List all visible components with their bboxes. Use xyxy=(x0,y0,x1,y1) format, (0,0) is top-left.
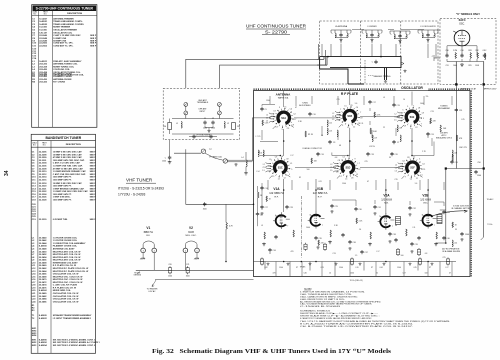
capacitor C37 xyxy=(360,250,363,254)
svg-text:C25: C25 xyxy=(364,161,367,163)
svg-text:1000 MMF GMV FT.: 1000 MMF GMV FT. xyxy=(53,199,72,201)
svg-text:SW. SECTION 1-2 W/DISC ASSEM.: SW. SECTION 1-2 W/DISC ASSEM. A-C PLATE … xyxy=(53,341,101,344)
svg-text:22-2648: 22-2648 xyxy=(39,37,47,40)
wire switch columns xyxy=(284,128,412,156)
svg-text:OSCILLATOR COIL CH. W: OSCILLATOR COIL CH. W xyxy=(53,298,79,301)
capacitor C12 xyxy=(341,233,344,237)
svg-text:C42: C42 xyxy=(264,267,267,269)
coil L16 xyxy=(400,135,401,142)
svg-text:L5: L5 xyxy=(344,106,346,108)
svg-text:L3 ANTENNA: L3 ANTENNA xyxy=(335,25,348,28)
white backing for OSCILLATOR xyxy=(396,86,428,91)
coil xyxy=(394,34,395,38)
svg-text:R.F. CHOKE: R.F. CHOKE xyxy=(53,82,65,84)
connector xyxy=(184,111,188,115)
svg-text:47: 47 xyxy=(366,35,368,37)
svg-text:ANTENNA COIL ASSY: ANTENNA COIL ASSY xyxy=(53,248,75,251)
svg-text:34: 34 xyxy=(4,170,10,176)
svg-text:COUPLING COIL: COUPLING COIL xyxy=(53,69,70,71)
svg-text:C ANT 2 12 CER. DISC CAP.: C ANT 2 12 CER. DISC CAP. xyxy=(53,162,81,165)
svg-text:WAFER S1A: WAFER S1A xyxy=(278,96,289,99)
svg-text:20-3470: 20-3470 xyxy=(39,278,47,281)
svg-text:5: 5 xyxy=(349,156,350,158)
resistor R11 xyxy=(370,232,371,239)
coil L12 xyxy=(327,120,328,127)
svg-text:C14: C14 xyxy=(264,188,267,190)
coil L-OSC xyxy=(485,53,486,60)
resistor 22K xyxy=(430,118,431,124)
svg-text:OSCILLATOR COIL CH. W: OSCILLATOR COIL CH. W xyxy=(53,295,79,298)
svg-text:SEE F: SEE F xyxy=(90,157,97,159)
svg-text:C15: C15 xyxy=(394,179,397,181)
svg-text:L19: L19 xyxy=(374,138,377,140)
svg-text:22-3298: 22-3298 xyxy=(39,154,47,156)
capacitor C32 xyxy=(408,206,411,210)
svg-text:SEE F: SEE F xyxy=(90,199,97,201)
switch S1D xyxy=(335,156,360,180)
svg-text:SPEAKER TRANSFORMER ASSEMBLY: SPEAKER TRANSFORMER ASSEMBLY xyxy=(53,314,92,317)
UHF coil cluster L3 MIXER xyxy=(362,26,382,44)
svg-text:FILAMENT CHOKE: FILAMENT CHOKE xyxy=(53,75,72,78)
switch contact clusters xyxy=(269,113,274,123)
svg-text:203-430: 203-430 xyxy=(39,78,47,81)
svg-text:20-3454: 20-3454 xyxy=(39,256,47,259)
wire 6AF4 circuit xyxy=(447,46,477,56)
svg-text:1500: 1500 xyxy=(168,276,172,278)
switch S1B xyxy=(337,105,362,129)
svg-text:C17: C17 xyxy=(372,102,375,104)
svg-text:L17: L17 xyxy=(291,155,294,157)
svg-text:SW. SECTION 1-2 W/DISC ASSEM.: SW. SECTION 1-2 W/DISC ASSEM. CONT. 2 xyxy=(53,344,96,347)
svg-text:IF CABLE 50Ω: IF CABLE 50Ω xyxy=(209,155,222,158)
svg-text:1.5: 1.5 xyxy=(395,170,398,172)
svg-text:C5: C5 xyxy=(264,109,266,111)
coil xyxy=(434,33,435,37)
svg-text:C35: C35 xyxy=(318,238,321,240)
svg-text:C50: C50 xyxy=(477,162,480,164)
feedthru capacitor xyxy=(418,258,421,266)
svg-text:20-3474: 20-3474 xyxy=(39,284,47,287)
svg-text:C34: C34 xyxy=(272,250,275,252)
svg-text:UHF CONTINUOUS TUNER: UHF CONTINUOUS TUNER xyxy=(246,24,307,29)
resistor R5 xyxy=(370,128,371,134)
svg-text:6BK7A: 6BK7A xyxy=(144,230,153,234)
svg-text:22-3316: 22-3316 xyxy=(39,179,47,181)
svg-text:22-3328: 22-3328 xyxy=(39,199,47,201)
svg-text:C4: C4 xyxy=(422,163,424,165)
svg-text:9: 9 xyxy=(354,158,355,160)
svg-text:L8: L8 xyxy=(274,111,276,113)
svg-text:C27: C27 xyxy=(264,207,267,209)
feedthru capacitor xyxy=(446,258,449,266)
feedthru capacitor xyxy=(396,248,399,256)
svg-text:L17: L17 xyxy=(377,251,380,253)
right rail details xyxy=(483,167,485,169)
svg-text:63-1450: 63-1450 xyxy=(39,75,47,78)
svg-text:C32: C32 xyxy=(412,208,415,210)
connector xyxy=(223,159,227,163)
svg-text:5: 5 xyxy=(410,128,411,130)
capacitor C1 xyxy=(203,121,206,125)
svg-text:R.F.: R.F. xyxy=(146,235,150,237)
svg-text:7: 7 xyxy=(322,225,323,227)
svg-text:470: 470 xyxy=(273,272,276,274)
feedthru capacitor xyxy=(323,243,326,251)
svg-text:10: 10 xyxy=(329,272,331,274)
svg-text:1 MMF BRONZE CERAMIC CAP.: 1 MMF BRONZE CERAMIC CAP. xyxy=(53,187,85,190)
svg-text:C10: C10 xyxy=(460,50,463,52)
svg-text:12: 12 xyxy=(278,178,280,180)
tube V3 6AF4 xyxy=(453,30,470,46)
svg-text:1.5 MMF 5 NE TUB. CER. CAP.: 1.5 MMF 5 NE TUB. CER. CAP. xyxy=(53,165,83,168)
capacitor C10 xyxy=(460,54,463,58)
resistor 150ohm right xyxy=(232,123,236,130)
switch S1F xyxy=(400,156,425,180)
svg-text:7: 7 xyxy=(434,225,435,227)
svg-text:5: 5 xyxy=(196,250,197,252)
svg-text:INTERSTAGE COIL ASSY: INTERSTAGE COIL ASSY xyxy=(53,261,79,264)
svg-text:L4: L4 xyxy=(241,157,243,159)
resistor 10K xyxy=(311,158,312,164)
junction dots xyxy=(283,140,285,142)
svg-text:SEE F: SEE F xyxy=(90,177,97,179)
svg-text:1.5: 1.5 xyxy=(355,255,358,257)
connector xyxy=(184,103,188,107)
svg-text:“U” MODELS ONLY: “U” MODELS ONLY xyxy=(456,12,480,16)
svg-text:R.F. PLATE COIL CH. W: R.F. PLATE COIL CH. W xyxy=(53,264,76,267)
resistor 1K xyxy=(266,196,267,202)
svg-text:OSCILLATOR COIL: OSCILLATOR COIL xyxy=(53,31,73,34)
svg-text:17Y20U - S-24393: 17Y20U - S-24393 xyxy=(118,192,145,196)
svg-text:20-3448: 20-3448 xyxy=(39,248,47,251)
svg-text:C2: C2 xyxy=(293,113,295,115)
svg-text:S- 22790: S- 22790 xyxy=(265,30,288,35)
svg-text:8 CH. A-25000 TUNER A/D: 8 CH. A-25000 TUNER A/D CONVERTER PLATE … xyxy=(300,322,414,325)
svg-text:SEE F: SEE F xyxy=(90,219,97,221)
capacitor C33 xyxy=(442,210,445,214)
svg-text:12: 12 xyxy=(413,156,415,158)
svg-text:63-1447: 63-1447 xyxy=(39,72,47,75)
svg-text:MIXER TUNING COIL: MIXER TUNING COIL xyxy=(53,66,74,68)
svg-text:C9: C9 xyxy=(287,128,289,130)
svg-text:C8: C8 xyxy=(336,171,338,173)
svg-text:22: 22 xyxy=(269,253,271,255)
more rail drops xyxy=(276,262,452,277)
svg-text:Fig. 32 Schematic Diagram VH: Fig. 32 Schematic Diagram VHF & UHF Tune… xyxy=(152,349,392,355)
svg-text:7: 7 xyxy=(401,172,402,174)
svg-text:S1A: S1A xyxy=(281,117,286,120)
coil L5 xyxy=(263,150,264,157)
svg-text:NO.: NO. xyxy=(33,145,37,147)
svg-text:3: 3 xyxy=(279,107,280,109)
svg-text:VHF TUNER: VHF TUNER xyxy=(126,178,153,183)
svg-text:1000 MMF GMV FT.: 1000 MMF GMV FT. xyxy=(53,177,72,179)
capacitor C20 xyxy=(390,152,393,156)
resistor 2.2M xyxy=(455,53,456,59)
svg-text:TO B+(138+15): TO B+(138+15) xyxy=(349,280,362,282)
svg-text:CRYSTAL MIXER: CRYSTAL MIXER xyxy=(196,133,211,136)
svg-text:BANDSWITCH TUNER: BANDSWITCH TUNER xyxy=(45,136,81,140)
svg-text:22-3320: 22-3320 xyxy=(39,186,47,188)
svg-text:9: 9 xyxy=(269,171,270,173)
svg-text:SHORT BLADE RISE CLIP ─▶─: SHORT BLADE RISE CLIP ─▶─ ALIGNMENT SLOT… xyxy=(300,315,380,318)
svg-text:ITX20U - S-23215 OR S-24393: ITX20U - S-23215 OR S-24393 xyxy=(118,186,164,190)
svg-text:22-3330: 22-3330 xyxy=(39,219,47,221)
svg-text:L8: L8 xyxy=(422,112,424,114)
resistor R13 xyxy=(436,232,437,239)
svg-text:3: 3 xyxy=(342,125,343,127)
svg-text:L9: L9 xyxy=(261,225,263,227)
svg-text:TP-MX: TP-MX xyxy=(300,267,306,269)
svg-text:9: 9 xyxy=(282,129,283,131)
svg-text:47 MMF 5 NE CER. DISC CAP.: 47 MMF 5 NE CER. DISC CAP. xyxy=(53,156,83,159)
svg-text:L14: L14 xyxy=(257,171,260,173)
svg-text:1/2 6U8: 1/2 6U8 xyxy=(381,198,392,202)
svg-text:MULTIPLE OSC. COILS CH. W: MULTIPLE OSC. COILS CH. W xyxy=(53,279,83,281)
coax shielded line xyxy=(228,160,253,162)
resistor 470 xyxy=(318,240,319,246)
svg-text:OSCILLATOR COIL CH. W: OSCILLATOR COIL CH. W xyxy=(53,300,79,303)
svg-text:L21: L21 xyxy=(399,128,402,130)
capacitor C30 xyxy=(445,54,448,58)
svg-text:7 ALL 1 P.S.T.D. BANDSWITCH B: 7 ALL 1 P.S.T.D. BANDSWITCH BUTTONS ARE … xyxy=(300,320,451,323)
svg-text:SEE F: SEE F xyxy=(90,43,97,45)
svg-text:OSCILLATOR COIL CH. W: OSCILLATOR COIL CH. W xyxy=(53,292,79,295)
svg-text:R. F.: R. F. xyxy=(318,196,323,198)
svg-text:10: 10 xyxy=(403,99,405,101)
svg-text:L8: L8 xyxy=(418,108,420,110)
svg-text:C36: C36 xyxy=(352,242,355,244)
capacitor C26 xyxy=(450,160,453,164)
svg-text:C7: C7 xyxy=(397,142,399,144)
svg-text:1.5: 1.5 xyxy=(330,170,333,172)
svg-text:SEE F: SEE F xyxy=(90,194,97,196)
svg-text:203-416: 203-416 xyxy=(39,63,47,66)
svg-text:7: 7 xyxy=(272,122,273,124)
svg-text:20-3458: 20-3458 xyxy=(39,261,47,264)
svg-text:R29: R29 xyxy=(468,65,471,67)
svg-text:1: 1 xyxy=(310,215,311,217)
svg-text:L1: L1 xyxy=(176,123,178,125)
svg-text:OF A GAME FIGURE: OF A GAME FIGURE xyxy=(442,250,461,253)
svg-text:MULTIPLE ANT. COIL CH. W: MULTIPLE ANT. COIL CH. W xyxy=(53,256,81,259)
svg-text:L24: L24 xyxy=(454,243,457,245)
svg-text:FILAMENT CHOKE: FILAMENT CHOKE xyxy=(53,72,72,75)
svg-text:470: 470 xyxy=(321,242,324,244)
svg-text:OSC.: OSC. xyxy=(459,23,465,26)
svg-text:GROUND: GROUND xyxy=(134,274,142,276)
connector xyxy=(218,103,222,107)
svg-text:C29: C29 xyxy=(334,206,337,208)
resistor 1K xyxy=(452,222,453,228)
svg-text:INPUT: INPUT xyxy=(200,111,207,113)
svg-text:22-3308: 22-3308 xyxy=(39,168,47,170)
svg-text:S-40560: S-40560 xyxy=(39,245,48,248)
svg-text:7: 7 xyxy=(287,225,288,227)
svg-text:1/2 6BK7A: 1/2 6BK7A xyxy=(313,191,329,195)
coil L4 xyxy=(246,160,247,167)
svg-text:L19 5%: L19 5% xyxy=(369,146,375,148)
svg-text:68: 68 xyxy=(339,145,341,147)
svg-text:MULTIPLE ANT. COIL CH. W: MULTIPLE ANT. COIL CH. W xyxy=(53,250,81,253)
svg-text:22: 22 xyxy=(376,272,378,274)
svg-text:L8: L8 xyxy=(276,127,278,129)
svg-text:100: 100 xyxy=(401,255,404,257)
feedthru capacitor xyxy=(304,243,307,251)
svg-text:20-3462: 20-3462 xyxy=(39,267,47,270)
UHF coil cluster L3 ANTENNA xyxy=(331,25,351,44)
svg-text:1 MMF 5 NE DISC.: 1 MMF 5 NE DISC. xyxy=(53,197,71,199)
capacitor C19 xyxy=(392,103,395,107)
svg-text:150: 150 xyxy=(237,126,240,128)
svg-text:TO AGC: TO AGC xyxy=(487,198,494,201)
svg-text:112-060: 112-060 xyxy=(39,30,47,32)
svg-text:INSULATED CPLG: INSULATED CPLG xyxy=(436,137,453,140)
svg-text:6.8: 6.8 xyxy=(425,253,428,255)
svg-text:22-2650: 22-2650 xyxy=(39,43,47,45)
svg-text:L3 MIXER: L3 MIXER xyxy=(367,26,377,28)
svg-text:R1 1K: R1 1K xyxy=(308,134,314,136)
svg-text:SEE F: SEE F xyxy=(90,168,97,170)
connector xyxy=(201,149,205,153)
svg-text:SEE F: SEE F xyxy=(90,163,97,165)
svg-text:1.5: 1.5 xyxy=(269,159,272,161)
capacitor C24 xyxy=(426,132,429,136)
svg-text:SEE F: SEE F xyxy=(90,191,97,193)
svg-text:1500: 1500 xyxy=(339,267,343,269)
svg-text:SEE F: SEE F xyxy=(90,186,97,188)
svg-text:ANTENNA TUNING COIL: ANTENNA TUNING COIL xyxy=(53,63,78,66)
feedthru capacitor xyxy=(260,258,263,266)
coil xyxy=(406,34,407,38)
svg-text:NO.: NO. xyxy=(43,145,47,147)
coil L12 xyxy=(337,130,338,137)
svg-text:150: 150 xyxy=(163,126,166,128)
svg-text:OSC.: OSC. xyxy=(423,203,429,205)
svg-text:1000 MMF GMV FT.: 1000 MMF GMV FT. xyxy=(53,179,72,181)
svg-text:C31: C31 xyxy=(445,65,448,67)
heater pins V2 xyxy=(183,248,188,253)
svg-text:C16: C16 xyxy=(320,154,323,156)
svg-text:C28: C28 xyxy=(289,207,292,209)
svg-text:C4: C4 xyxy=(338,120,340,122)
svg-text:SHORTING BLADE CLIP ▶──: SHORTING BLADE CLIP ▶── LONG CONTACT CLI… xyxy=(300,312,378,315)
svg-text:TRANS LINE ASSEM. COVERS: TRANS LINE ASSEM. COVERS xyxy=(53,23,84,26)
svg-text:5.6: 5.6 xyxy=(355,103,358,105)
extra wires xyxy=(260,105,444,210)
svg-text:L7: L7 xyxy=(294,119,296,121)
capacitor C29 xyxy=(330,204,333,208)
svg-text:C18: C18 xyxy=(370,154,373,156)
svg-text:1500: 1500 xyxy=(279,267,283,269)
resistor on x=226 xyxy=(225,204,227,222)
svg-text:10: 10 xyxy=(285,225,287,227)
svg-text:C39: C39 xyxy=(414,244,417,246)
svg-text:20-3450: 20-3450 xyxy=(39,250,47,253)
ground 6AF4 xyxy=(460,63,464,66)
svg-text:470: 470 xyxy=(397,117,400,119)
svg-text:1: 1 xyxy=(422,215,423,217)
svg-text:L2: L2 xyxy=(266,114,268,116)
svg-text:L2: L2 xyxy=(330,164,332,166)
svg-text:1500: 1500 xyxy=(465,234,469,236)
svg-text:1000: 1000 xyxy=(420,103,424,105)
svg-text:L13: L13 xyxy=(329,131,332,133)
svg-text:47: 47 xyxy=(394,36,396,38)
resistor 22K xyxy=(477,53,478,59)
svg-text:L5: L5 xyxy=(290,163,292,165)
svg-text:SCHEMATIC SYMBOLS: SCHEMATIC SYMBOLS xyxy=(300,309,331,312)
capacitor C10 xyxy=(308,112,311,116)
svg-text:SEE F: SEE F xyxy=(90,188,97,190)
svg-text:C46: C46 xyxy=(303,272,306,274)
svg-text:MULTIPLE R.F. PLATE COILS CH.: MULTIPLE R.F. PLATE COILS CH. W xyxy=(53,267,88,270)
svg-text:S-40511: S-40511 xyxy=(39,60,48,63)
capacitor C11 xyxy=(274,235,277,239)
svg-text:47: 47 xyxy=(422,35,424,37)
svg-text:SEE F: SEE F xyxy=(90,197,97,199)
svg-text:5%: 5% xyxy=(426,96,429,98)
svg-text:SW. SECTION 1-2 W/DISC ASSEM.: SW. SECTION 1-2 W/DISC ASSEM. CONT. 1 xyxy=(53,338,96,341)
svg-text:S-22790-UHF CONTINUOUS TUNER: S-22790-UHF CONTINUOUS TUNER xyxy=(36,7,94,11)
svg-text:MIXER TRIMMER: MIXER TRIMMER xyxy=(53,27,70,29)
svg-text:S-42822: S-42822 xyxy=(39,317,48,320)
svg-text:L5: L5 xyxy=(345,178,347,180)
svg-text:COAXIAL CONNECTOR: COAXIAL CONNECTOR xyxy=(302,147,322,150)
svg-text:126-147: 126-147 xyxy=(39,31,47,34)
VHF bandswitch tuner enclosure xyxy=(254,91,471,277)
capacitor C51 xyxy=(455,108,458,112)
capacitor C30 xyxy=(354,207,357,211)
svg-text:203-418: 203-418 xyxy=(39,65,47,68)
svg-text:47: 47 xyxy=(367,181,369,183)
svg-text:L5: L5 xyxy=(284,106,286,108)
svg-text:SEE F: SEE F xyxy=(90,35,97,37)
feedthru capacitor xyxy=(186,266,189,274)
svg-text:1: 1 xyxy=(275,215,276,217)
heater pins V1 xyxy=(141,248,146,253)
capacitor xyxy=(398,34,401,38)
svg-text:22-3310: 22-3310 xyxy=(39,171,47,173)
svg-text:OSC CPL: OSC CPL xyxy=(459,147,467,149)
svg-text:C9: C9 xyxy=(275,157,277,159)
svg-text:C30: C30 xyxy=(358,209,361,211)
svg-text:100: 100 xyxy=(307,169,310,171)
resistor R12 xyxy=(406,229,407,236)
svg-text:OSCILLATOR COIL CH. W: OSCILLATOR COIL CH. W xyxy=(53,273,79,276)
resistor 2.2K xyxy=(356,218,357,224)
svg-text:C21: C21 xyxy=(186,264,189,266)
B+ rails right xyxy=(436,86,484,243)
svg-text:20-3468: 20-3468 xyxy=(39,275,47,278)
svg-text:C9: C9 xyxy=(286,158,288,160)
svg-text:20-3480: 20-3480 xyxy=(39,292,47,295)
capacitor C14 xyxy=(260,186,263,190)
svg-text:L7 C5: L7 C5 xyxy=(256,136,261,138)
svg-text:MIX.: MIX. xyxy=(384,203,389,205)
svg-text:L27: L27 xyxy=(446,267,449,269)
svg-text:C2: C2 xyxy=(415,127,417,129)
svg-text:NO.: NO. xyxy=(44,14,48,16)
svg-text:1000: 1000 xyxy=(211,128,215,130)
svg-text:22-3301: 22-3301 xyxy=(39,160,47,162)
resistor 5.6K xyxy=(262,120,263,126)
svg-text:C5: C5 xyxy=(266,117,268,119)
svg-text:C31: C31 xyxy=(377,207,380,209)
capacitor C-left xyxy=(256,212,259,216)
capacitor C7 xyxy=(392,140,395,144)
svg-text:22-3296: 22-3296 xyxy=(39,152,47,154)
